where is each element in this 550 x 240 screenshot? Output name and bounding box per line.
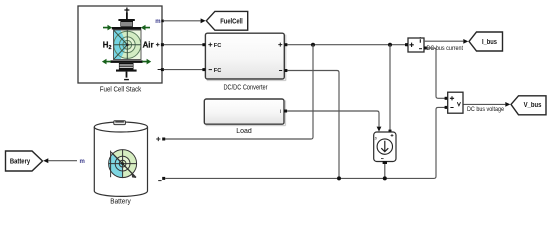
svg-text:DC bus voltage: DC bus voltage (467, 107, 505, 113)
wire: fuel cell m output to FuelCell tag (161, 18, 205, 23)
svg-text:I_bus: I_bus (482, 39, 497, 46)
wire: current measurement i output to I_bus tag (425, 39, 469, 44)
block Battery: cylinder body (94, 121, 147, 197)
goto tag Battery (6, 151, 43, 171)
goto tag V_bus (511, 96, 546, 115)
wire: + bus down to battery + port (162, 45, 313, 141)
junction node on + bus at x=390 (388, 43, 392, 47)
svg-text:Air: Air (143, 41, 154, 50)
fuel cell icon: membrane square with circle (H2 / Air) (114, 30, 142, 60)
svg-text:Fuel Cell Stack: Fuel Cell Stack (100, 86, 142, 93)
battery inner icon (circle emblem) (109, 150, 137, 178)
block Controlled Current Source (374, 132, 396, 162)
goto tag I_bus (469, 32, 503, 51)
svg-text:DC/DC Converter: DC/DC Converter (224, 85, 269, 92)
block Load (204, 99, 286, 135)
fuel cell icon: top inlet arrows (green, pointing inward) (103, 25, 150, 31)
wire: + bus down to controlled current source + terminal (389, 45, 392, 133)
svg-text:i: i (280, 109, 281, 115)
fuel cell icon: bottom outlet arrows (green, pointing outward) (102, 59, 151, 65)
svg-text:m: m (155, 19, 160, 25)
fuel cell port labels m, +, - (155, 19, 160, 25)
wire: fuel cell - to DC/DC -FC (161, 68, 206, 71)
goto tag FuelCell (206, 11, 247, 30)
svg-text:Load: Load (236, 128, 252, 135)
svg-text:V_bus: V_bus (524, 102, 542, 109)
svg-text:FC: FC (214, 43, 221, 49)
block Current Measurement (408, 37, 463, 52)
svg-text:Battery: Battery (110, 199, 131, 206)
fuel cell icon: top electrode with + terminal (112, 8, 141, 30)
svg-text:m: m (80, 159, 85, 165)
junction node on - bus at x=385 (383, 176, 387, 180)
wire: voltage measurement v output to V_bus tag (464, 102, 511, 107)
wire: DC/DC - output right then down to - bus (284, 69, 339, 178)
wire: - bus from battery - port to voltage measurement - input (162, 106, 447, 180)
svg-text:DC bus current: DC bus current (427, 46, 464, 52)
current measurement + input port square (405, 43, 408, 46)
block Voltage Measurement (448, 92, 505, 113)
block DC/DC Converter (205, 33, 286, 91)
junction node on + bus at x=313 (311, 43, 315, 47)
wire: fuel cell + to DC/DC +FC (161, 43, 206, 46)
svg-text:Battery: Battery (10, 159, 30, 166)
wire: current measurement - terminal down to voltage measurement + input (424, 47, 448, 100)
battery port labels (80, 159, 85, 165)
DC/DC port labels (214, 43, 221, 74)
block Fuel Cell Stack (78, 6, 162, 93)
junction node on - bus at x=339 (337, 176, 341, 180)
wire: battery m output to Battery tag (43, 158, 77, 163)
fuel cell icon: bottom electrode with - terminal (110, 60, 142, 79)
svg-text:FC: FC (214, 68, 221, 74)
wire: DC bus + from DC/DC + output to current measurement (284, 43, 409, 46)
wire: current source bottom terminal to - bus (383, 161, 387, 178)
svg-text:FuelCell: FuelCell (220, 18, 243, 25)
wire: Load output to current source signal input (284, 110, 381, 132)
